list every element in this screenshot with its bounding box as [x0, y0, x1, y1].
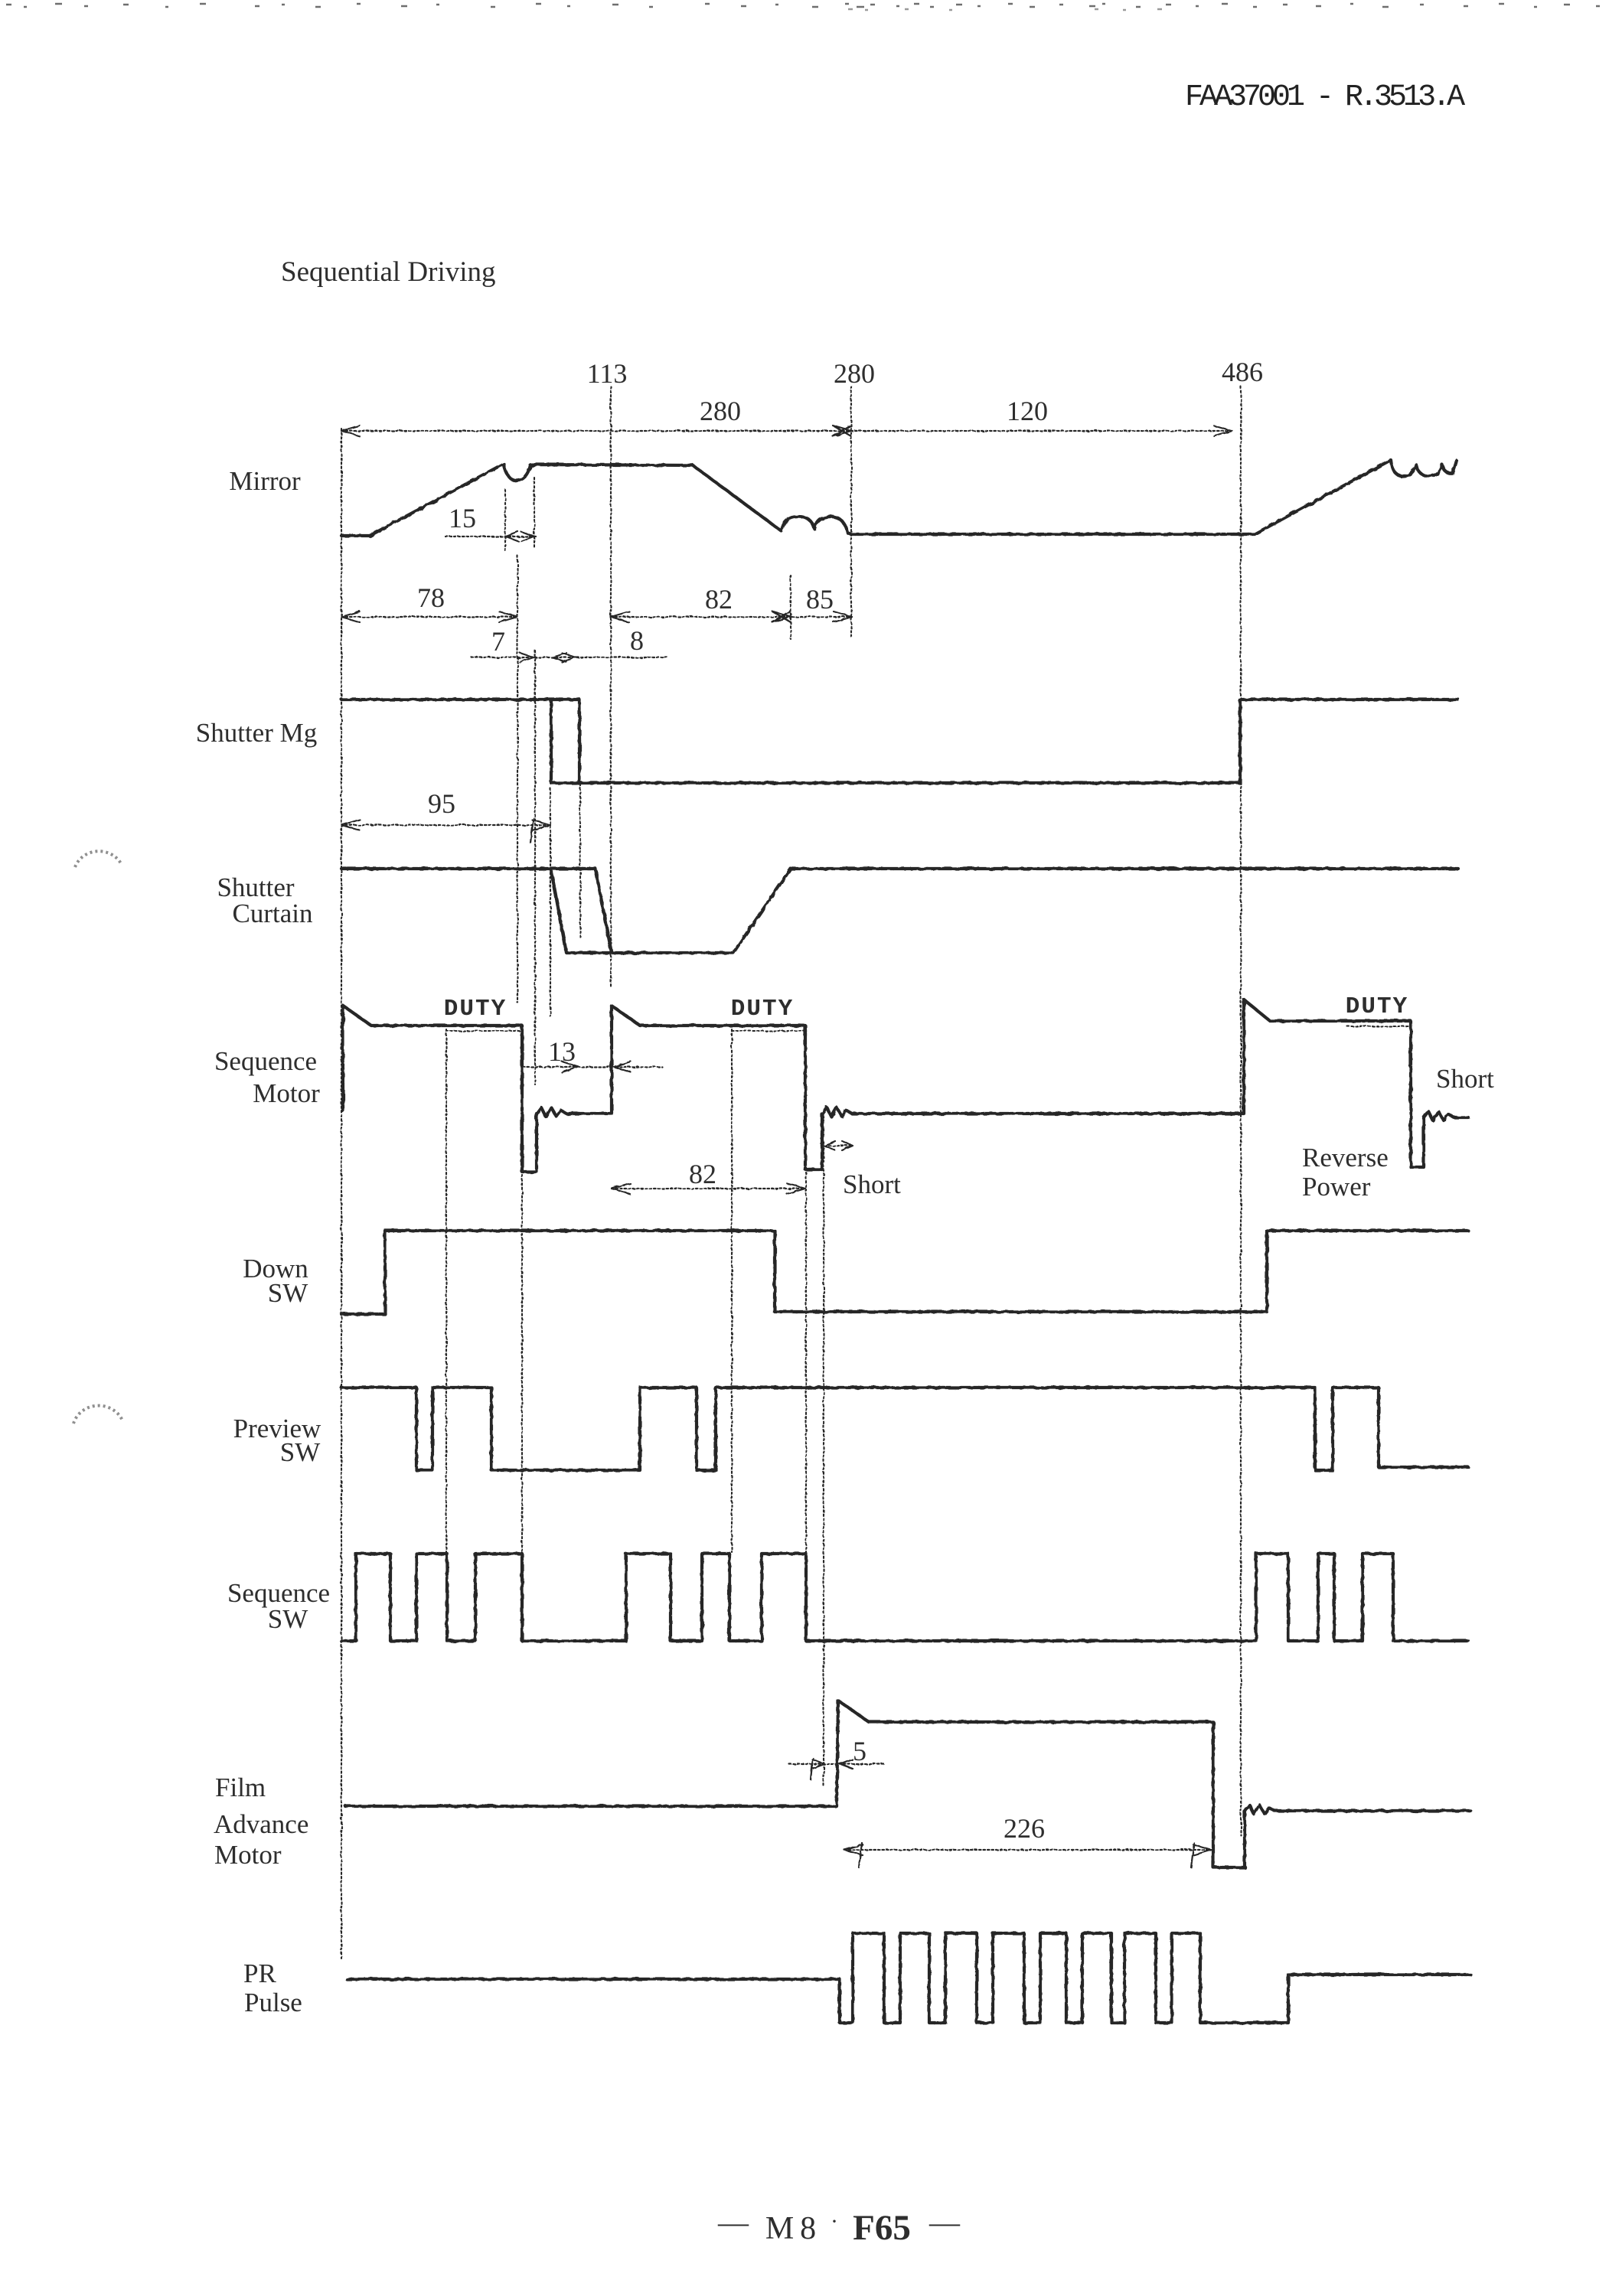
gridline t=82 end — [790, 576, 791, 639]
svg-text:F65: F65 — [853, 2208, 911, 2248]
dim line 280/120 overall — [341, 426, 1232, 436]
svg-text:Power: Power — [1302, 1172, 1371, 1202]
svg-text:486: 486 — [1222, 357, 1263, 387]
wire: Preview SW waveform — [341, 1388, 1468, 1470]
svg-text:M8: M8 — [765, 2211, 822, 2246]
svg-text:7: 7 — [491, 626, 505, 657]
gridline duty2 right extension — [805, 1172, 807, 1638]
svg-text:Motor: Motor — [214, 1840, 282, 1870]
svg-text:DUTY: DUTY — [444, 996, 507, 1022]
svg-text:13: 13 — [548, 1036, 576, 1067]
dim line 13 — [523, 1062, 662, 1072]
gridline t=78 — [517, 556, 518, 1003]
gridline t=280 — [850, 386, 852, 639]
svg-text:226: 226 — [1004, 1813, 1045, 1844]
wire: Shutter Curtain waveform — [341, 869, 1458, 953]
svg-text:Sequence: Sequence — [214, 1046, 317, 1076]
svg-text:Reverse: Reverse — [1302, 1143, 1389, 1172]
svg-text:5: 5 — [853, 1736, 866, 1766]
gridline t=113 — [610, 386, 612, 987]
svg-text:15: 15 — [449, 503, 476, 533]
dim line 5 — [789, 1758, 886, 1779]
svg-text:Motor: Motor — [253, 1078, 320, 1108]
dim line 78 — [341, 612, 517, 622]
svg-text:85: 85 — [806, 584, 834, 615]
svg-text:8: 8 — [630, 625, 644, 656]
wire: Mirror waveform — [341, 460, 1457, 536]
svg-text:Pulse: Pulse — [244, 1988, 302, 2017]
svg-text:113: 113 — [587, 358, 628, 389]
dim line 7 — [472, 653, 669, 662]
scanner noise top edge — [6, 4, 1600, 10]
svg-text:Mirror: Mirror — [229, 466, 301, 496]
dim line 15 mirror bounce — [445, 532, 536, 541]
dim line 82/85 — [611, 612, 852, 622]
dim line 226 — [844, 1843, 1212, 1867]
gridline duty2 left — [731, 1029, 733, 1552]
gridline t=0 left boundary — [341, 429, 342, 1959]
duty box 1 underline — [446, 1030, 522, 1032]
svg-text:Advance: Advance — [214, 1809, 308, 1839]
svg-text:Short: Short — [1436, 1064, 1494, 1094]
wire: Sequence Motor waveform — [343, 1000, 1468, 1172]
svg-text:82: 82 — [705, 584, 733, 615]
duty box 2 underline — [732, 1030, 805, 1032]
svg-text:Film: Film — [215, 1773, 266, 1802]
svg-text:82: 82 — [689, 1159, 716, 1189]
gridline 8ms — [579, 700, 581, 939]
svg-text:DUTY: DUTY — [1346, 993, 1408, 1020]
gridline shutter-mg release — [550, 788, 551, 1016]
svg-text:—: — — [928, 2205, 961, 2239]
punch hole arc lower-left — [73, 1406, 122, 1424]
gridline mirror-up dim left — [504, 490, 506, 551]
svg-text:FAA37001 - R.3513.A: FAA37001 - R.3513.A — [1185, 80, 1465, 115]
gridline duty1 right extension — [521, 1175, 523, 1638]
svg-text:SW: SW — [268, 1604, 308, 1634]
dim line short gap — [824, 1141, 853, 1150]
gridline film-advance start — [823, 1148, 824, 1788]
wire: Film Advance Motor waveform — [345, 1701, 1470, 1867]
svg-text:95: 95 — [428, 788, 455, 819]
svg-text:SW: SW — [268, 1278, 308, 1308]
gridline mirror-up dim right — [534, 478, 535, 547]
duty box 3 underline — [1347, 1026, 1411, 1027]
svg-text:280: 280 — [834, 358, 875, 389]
svg-text:Curtain: Curtain — [233, 899, 313, 928]
gridline t=486 — [1240, 386, 1242, 1835]
gridline 7ms — [534, 651, 536, 1084]
svg-text:Shutter Mg: Shutter Mg — [196, 718, 317, 748]
dim line 82 sequence motor — [612, 1183, 805, 1194]
svg-text:—: — — [717, 2205, 749, 2239]
svg-text:SW: SW — [280, 1437, 321, 1467]
svg-text:78: 78 — [417, 582, 445, 613]
svg-text:DUTY: DUTY — [731, 996, 794, 1022]
svg-text:Sequential Driving: Sequential Driving — [281, 256, 496, 288]
svg-text:280: 280 — [700, 396, 741, 426]
dim line 95 — [341, 818, 550, 843]
wire: PR Pulse waveform — [347, 1933, 1470, 2023]
svg-text:Short: Short — [843, 1169, 901, 1199]
svg-text:120: 120 — [1007, 396, 1048, 426]
wire: Down SW waveform — [341, 1231, 1468, 1314]
punch hole arc upper-left — [75, 851, 122, 867]
gridline duty1 left — [445, 1029, 447, 1552]
wire: Sequence SW waveform — [341, 1554, 1468, 1641]
svg-text:PR: PR — [243, 1958, 276, 1988]
svg-text:·: · — [831, 2209, 838, 2234]
wire: Shutter Mg waveform — [341, 700, 1458, 783]
